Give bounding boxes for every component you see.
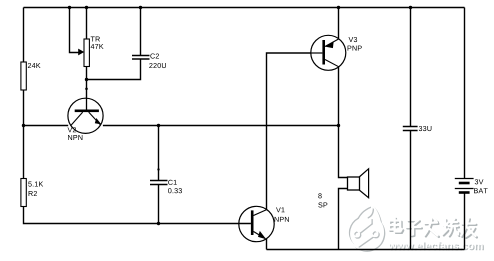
label 47K (91, 44, 104, 49)
junction dot C1 bottom / V1 base line (157, 222, 160, 225)
label NPN (275, 217, 289, 222)
label BAT (474, 188, 488, 193)
junction dot wiper / top rail (68, 6, 71, 9)
wire speaker bottom return to ground rail (339, 189, 348, 250)
wire C1 bottom lead (158, 185, 160, 224)
transistor V3 PNP (311, 35, 346, 70)
wire C1 top lead (158, 126, 160, 181)
label C2 (150, 53, 159, 58)
label 220U (149, 63, 166, 68)
resistor R2 5.1K (21, 179, 26, 207)
wire V3 collector down to speaker (339, 67, 348, 178)
wire C2 bottom to pot-bottom node (87, 59, 141, 80)
wire V1 emitter to ground rail (266, 239, 268, 250)
label SP (318, 202, 327, 207)
junction dot pot top / top rail (85, 6, 88, 9)
label PNP (348, 46, 362, 51)
wire node to R2 top (23, 126, 25, 179)
watermark text dian zi fa shao you (389, 218, 477, 238)
label R2 (29, 191, 37, 196)
wire left rail top segment (23, 8, 25, 63)
junction tick on C1 lead (157, 168, 159, 170)
capacitor C2 plates (132, 55, 150, 57)
battery BAT 3V (455, 179, 474, 193)
junction dot V3 emitter / top rail (337, 6, 340, 9)
potentiometer TR 47K body (84, 39, 89, 67)
label V1 (276, 207, 285, 212)
watermark logo elecfans (348, 205, 385, 251)
label V2 (68, 127, 77, 132)
wire 24K bottom to base-node (23, 90, 25, 126)
wire top supply rail (24, 7, 465, 9)
junction dot C1 top / mid wire (157, 124, 160, 127)
potentiometer wiper arrow (78, 49, 84, 56)
junction dot pot bottom / C2 return (85, 78, 88, 81)
label 8 (318, 193, 321, 198)
resistor R1 24K (21, 62, 26, 90)
label 24K (28, 63, 41, 68)
label 0.33 (168, 188, 182, 193)
transistor V1 NPN (239, 206, 274, 241)
watermark url www.elecfans.com (388, 241, 482, 249)
wire mid right: V2 emitter to V3 collector line (103, 125, 339, 127)
wire V1 collector to V3 base (267, 53, 311, 210)
label NPN (68, 135, 82, 140)
junction dot mid wire / V3 collector line (337, 124, 340, 127)
junction dot left rail / mid wire (22, 124, 25, 127)
wire 33U cap top lead (410, 8, 412, 127)
wire right rail to battery (464, 8, 466, 179)
wire bottom ground rail (267, 249, 465, 251)
capacitor C3 33U plates (403, 126, 418, 128)
wire battery bottom lead (464, 193, 466, 250)
junction dot 33U / top rail (409, 6, 412, 9)
label 5.1K (28, 182, 43, 187)
wire R2 bottom corner to V1 base line (24, 207, 251, 224)
label C1 (168, 180, 177, 185)
wire wiper stub from top rail (70, 8, 79, 53)
speaker SP box (348, 177, 360, 190)
wire pot top lead (86, 8, 88, 40)
label 33U (419, 126, 432, 131)
label 3V (475, 179, 484, 184)
label TR (91, 37, 100, 42)
speaker horn (359, 169, 368, 198)
junction dot small on V2 base lead (85, 88, 88, 91)
junction dot C2 / top rail (139, 6, 142, 9)
wire V3 emitter to top rail (338, 8, 340, 39)
wire 33U cap bottom lead (410, 131, 412, 250)
watermark url www.elecfans.com (shadow) (390, 243, 484, 251)
wire C2 top lead (140, 8, 142, 56)
transistor V2 NPN (68, 98, 103, 133)
capacitor C1 plates (150, 180, 168, 182)
wire mid left: left rail to V2 (24, 125, 69, 127)
wire pot bottom lead to V2 base (86, 67, 88, 99)
label V3 (349, 37, 358, 42)
